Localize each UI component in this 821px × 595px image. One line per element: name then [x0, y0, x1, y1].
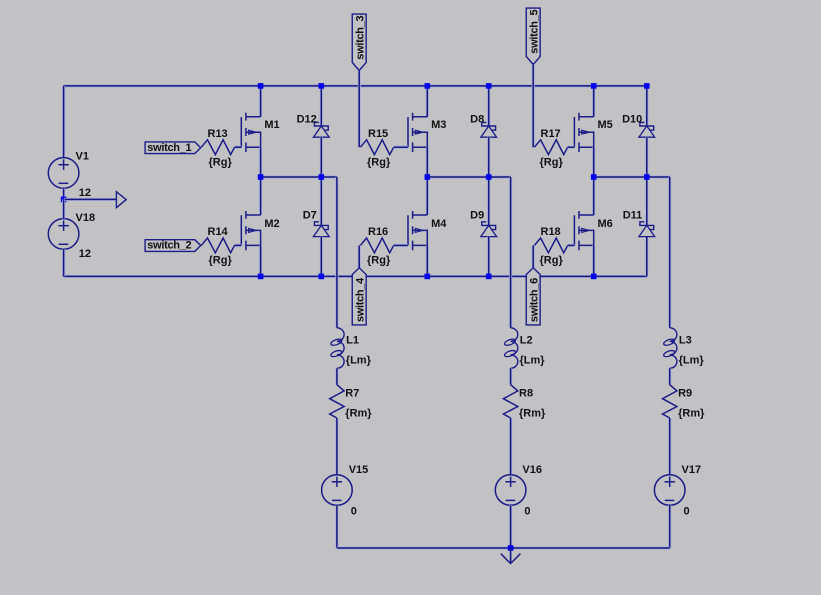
wire cathode of D8 — [487, 86, 490, 126]
value of L1 — [346, 354, 372, 366]
voltage source V16 — [495, 475, 526, 506]
svg-text:M6: M6 — [598, 218, 613, 230]
value of R15 — [367, 156, 391, 168]
svg-text:switch_6: switch_6 — [528, 278, 540, 322]
label D9 — [470, 210, 484, 222]
wire anode of D10 to phase node — [645, 137, 648, 177]
voltage source V18 — [48, 219, 79, 250]
label V1 — [76, 151, 89, 163]
label V18 — [76, 212, 96, 224]
svg-text:switch_4: switch_4 — [354, 277, 366, 322]
svg-text:V16: V16 — [522, 464, 542, 476]
node phase 2 at mosfets — [425, 174, 431, 180]
svg-text:R9: R9 — [678, 388, 692, 400]
svg-text:R15: R15 — [368, 128, 388, 140]
schottky diode D11 — [639, 222, 655, 237]
wire R13 to gate of M1 — [235, 146, 242, 149]
svg-text:{Lm}: {Lm} — [520, 354, 546, 366]
svg-text:D8: D8 — [470, 113, 484, 125]
wire phase output node — [427, 175, 510, 178]
svg-text:M4: M4 — [431, 218, 447, 230]
wire cathode of D7 — [320, 177, 323, 225]
wire bottom supply rail — [64, 275, 647, 278]
svg-text:D9: D9 — [470, 210, 484, 222]
node phase 2 at diodes — [486, 174, 492, 180]
value 12 of V18 — [79, 248, 91, 260]
wire drain of M1 — [259, 86, 262, 117]
node phase 3 at mosfets — [591, 174, 597, 180]
wire source of M1 to phase node — [259, 147, 262, 177]
svg-text:L3: L3 — [679, 335, 692, 347]
node source M6 on bottom rail — [591, 274, 597, 280]
transistor M4 (NMOS) — [408, 211, 427, 250]
svg-text:switch_2: switch_2 — [147, 240, 191, 252]
svg-text:L2: L2 — [520, 335, 533, 347]
node cathode D8 on top rail — [486, 83, 492, 89]
net label flag switch_1 — [145, 142, 201, 154]
svg-text:{Rg}: {Rg} — [367, 156, 391, 168]
text switch_3 — [354, 15, 366, 59]
transistor M3 (NMOS) — [408, 113, 427, 152]
label D11 — [623, 210, 643, 222]
svg-text:{Rg}: {Rg} — [540, 255, 564, 267]
value of R18 — [540, 255, 564, 267]
svg-text:R7: R7 — [345, 388, 359, 400]
svg-text:12: 12 — [79, 248, 91, 260]
net label flag switch_3 — [352, 14, 366, 70]
node source M2 on bottom rail — [258, 274, 264, 280]
node source M4 on bottom rail — [425, 274, 431, 280]
wire R8 to V16 — [509, 418, 512, 475]
svg-text:switch_1: switch_1 — [147, 142, 191, 154]
label R7 — [345, 388, 359, 400]
svg-text:switch_5: switch_5 — [528, 9, 540, 53]
label D12 — [297, 113, 317, 125]
svg-text:V1: V1 — [76, 151, 89, 163]
wire source of M5 to phase node — [592, 147, 595, 177]
svg-text:R14: R14 — [208, 226, 229, 238]
svg-text:M5: M5 — [598, 119, 613, 131]
resistor R8 — [503, 385, 517, 418]
svg-text:R17: R17 — [541, 128, 561, 140]
value 12 of V1 — [79, 187, 91, 199]
wire anode of D12 to phase node — [320, 137, 323, 177]
text switch_1 — [147, 142, 191, 154]
wire phase node to drain of M4 — [426, 177, 429, 215]
net label flag switch_5 — [526, 8, 540, 64]
wire top rail to V1 — [62, 86, 65, 158]
wire anode of D7 to bottom rail — [320, 237, 323, 277]
net label flag switch_2 — [145, 240, 201, 252]
node phase 3 at diodes — [644, 174, 650, 180]
node ground bus — [508, 545, 514, 551]
value of R7 — [345, 408, 372, 420]
schottky diode D7 — [313, 222, 329, 237]
wire anode of D8 to phase node — [487, 137, 490, 177]
wire V17 to bottom bus — [668, 505, 671, 548]
voltage source V15 — [322, 475, 353, 506]
wire switch_6 to R18 — [532, 245, 535, 267]
wire L2 to R8 — [509, 368, 512, 384]
wire phase node to drain of M2 — [259, 177, 262, 215]
wire switch_3 to R15 — [358, 70, 361, 147]
ground — [501, 548, 521, 564]
label L3 — [679, 335, 692, 347]
svg-text:M2: M2 — [264, 218, 279, 230]
svg-text:switch_3: switch_3 — [354, 15, 366, 59]
svg-text:0: 0 — [684, 506, 690, 518]
wire R18 to gate of M6 — [568, 244, 575, 247]
wire source of M6 to bottom rail — [592, 245, 595, 276]
value of R16 — [367, 255, 391, 267]
wire bottom rail up to D11 anode — [645, 237, 648, 277]
svg-text:{Rg}: {Rg} — [209, 255, 233, 267]
wire L1 to R7 — [335, 368, 338, 384]
svg-text:L1: L1 — [346, 335, 359, 347]
voltage source V17 — [654, 475, 685, 506]
value of L2 — [520, 354, 546, 366]
label R17 — [541, 128, 561, 140]
wire phase output node — [594, 175, 670, 178]
resistor R13 — [201, 140, 234, 155]
label L1 — [346, 335, 359, 347]
schottky diode D8 — [481, 122, 497, 137]
wire R9 to V17 — [668, 418, 671, 475]
wire cathode of D10 — [645, 86, 648, 126]
value of R9 — [678, 408, 705, 420]
wire R15 to gate of M3 — [394, 146, 408, 149]
text switch_6 — [528, 278, 540, 322]
value of R17 — [540, 156, 564, 168]
label R14 — [208, 226, 229, 238]
transistor M6 (NMOS) — [574, 211, 593, 250]
svg-text:{Rm}: {Rm} — [519, 408, 546, 420]
wire bottom bus — [337, 546, 670, 549]
label D7 — [303, 210, 317, 222]
svg-text:D11: D11 — [623, 210, 643, 222]
svg-text:{Rg}: {Rg} — [209, 156, 233, 168]
label R8 — [519, 388, 533, 400]
label L2 — [520, 335, 533, 347]
resistor R9 — [663, 385, 677, 418]
net label flag switch_6 — [526, 268, 540, 325]
label M2 — [264, 218, 279, 230]
svg-text:D12: D12 — [297, 113, 317, 125]
value of R13 — [209, 156, 233, 168]
node drain M3 on top rail — [425, 83, 431, 89]
node phase 1 at diodes — [319, 174, 325, 180]
wire cathode of D11 — [645, 177, 648, 225]
node anode D7 on bottom rail — [319, 274, 325, 280]
svg-text:V18: V18 — [76, 212, 96, 224]
svg-text:{Lm}: {Lm} — [346, 354, 372, 366]
inductor L1 — [330, 328, 344, 369]
svg-text:{Rm}: {Rm} — [345, 408, 372, 420]
wire R17 to gate of M5 — [568, 146, 575, 149]
svg-text:R18: R18 — [541, 226, 561, 238]
svg-text:{Rg}: {Rg} — [540, 156, 564, 168]
wire V15 to bottom bus — [335, 505, 338, 548]
svg-text:D10: D10 — [622, 113, 642, 125]
label V15 — [349, 464, 369, 476]
svg-text:R8: R8 — [519, 388, 533, 400]
node drain M5 on top rail — [591, 83, 597, 89]
svg-text:0: 0 — [351, 506, 357, 518]
wire phase node to drain of M6 — [592, 177, 595, 215]
value 0 of V15 — [351, 506, 357, 518]
wire switch_4 to R16 — [358, 245, 361, 267]
label D8 — [470, 113, 484, 125]
inductor L2 — [504, 328, 518, 369]
svg-text:D7: D7 — [303, 210, 317, 222]
voltage source V1 — [48, 158, 79, 189]
svg-text:12: 12 — [79, 187, 91, 199]
wire V1 minus to node — [62, 188, 65, 199]
svg-text:{Lm}: {Lm} — [679, 354, 705, 366]
wire V16 to bottom bus — [509, 505, 512, 548]
wire phase 1 to L1 — [335, 177, 338, 328]
schottky diode D12 — [313, 122, 329, 137]
node cathode D10 on top rail — [644, 83, 650, 89]
resistor R17 — [534, 140, 567, 155]
wire node to arrow marker — [64, 198, 117, 201]
label M4 — [431, 218, 447, 230]
value 0 of V17 — [684, 506, 690, 518]
wire source of M2 to bottom rail — [259, 245, 262, 276]
label R13 — [208, 128, 228, 140]
text switch_2 — [147, 240, 191, 252]
wire phase 2 to L2 — [509, 177, 512, 328]
wire drain of M5 — [592, 86, 595, 117]
resistor R14 — [201, 238, 234, 253]
text switch_5 — [528, 9, 540, 53]
svg-text:V15: V15 — [349, 464, 369, 476]
svg-text:R16: R16 — [368, 226, 388, 238]
net label flag switch_4 — [352, 268, 366, 325]
schottky diode D10 — [639, 122, 655, 137]
value of R8 — [519, 408, 546, 420]
transistor M2 (NMOS) — [241, 211, 260, 250]
wire node to V18 plus — [62, 199, 65, 218]
inductor L3 — [663, 328, 677, 369]
wire anode of D9 to bottom rail — [487, 237, 490, 277]
resistor R16 — [360, 238, 393, 253]
svg-text:{Rg}: {Rg} — [367, 255, 391, 267]
wire source of M4 to bottom rail — [426, 245, 429, 276]
wire cathode of D9 — [487, 177, 490, 225]
label M3 — [431, 119, 446, 131]
value 0 of V16 — [524, 506, 530, 518]
wire R16 to gate of M4 — [394, 244, 408, 247]
wire phase output node — [261, 175, 337, 178]
label R15 — [368, 128, 388, 140]
wire source of M3 to phase node — [426, 147, 429, 177]
label R16 — [368, 226, 388, 238]
wire top rail down to D10 cathode — [645, 86, 648, 126]
wire R14 to gate of M2 — [235, 244, 242, 247]
resistor R15 — [360, 140, 393, 155]
svg-text:0: 0 — [524, 506, 530, 518]
label V17 — [682, 464, 702, 476]
node anode D9 on bottom rail — [486, 274, 492, 280]
svg-text:M1: M1 — [264, 119, 279, 131]
wire R7 to V15 — [335, 418, 338, 475]
wire V18 minus to bottom rail — [62, 249, 65, 276]
transistor M5 (NMOS) — [574, 113, 593, 152]
node cathode D12 on top rail — [319, 83, 325, 89]
dangling wire arrow marker — [116, 192, 126, 208]
node drain M1 on top rail — [258, 83, 264, 89]
label V16 — [522, 464, 542, 476]
value of L3 — [679, 354, 705, 366]
resistor R7 — [330, 385, 344, 418]
label R18 — [541, 226, 561, 238]
wire L3 to R9 — [668, 368, 671, 384]
svg-text:R13: R13 — [208, 128, 228, 140]
value of R14 — [209, 255, 233, 267]
transistor M1 (NMOS) — [241, 113, 260, 152]
svg-text:M3: M3 — [431, 119, 446, 131]
wire switch_5 to R17 — [532, 64, 535, 147]
wire drain of M3 — [426, 86, 429, 117]
wire cathode of D12 — [320, 86, 323, 126]
label D10 — [622, 113, 642, 125]
node phase 1 at mosfets — [258, 174, 264, 180]
text switch_4 — [354, 277, 366, 322]
wire top supply rail — [64, 84, 647, 87]
label M1 — [264, 119, 279, 131]
label R9 — [678, 388, 692, 400]
wire phase 3 to L3 — [668, 177, 671, 328]
node between V1 and V18 — [61, 197, 67, 203]
label M5 — [598, 119, 613, 131]
label M6 — [598, 218, 613, 230]
svg-text:V17: V17 — [682, 464, 702, 476]
schottky diode D9 — [481, 222, 497, 237]
svg-text:{Rm}: {Rm} — [678, 408, 705, 420]
resistor R18 — [534, 238, 567, 253]
